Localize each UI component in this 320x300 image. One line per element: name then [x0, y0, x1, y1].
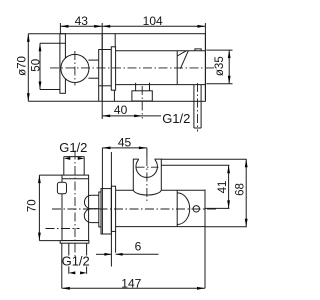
- dimension dia70: [27, 34, 102, 102]
- hook centerline vertical: [146, 157, 148, 203]
- extension pipe axis: [205, 207, 229, 209]
- outlet centerline: [141, 86, 143, 119]
- body bottom cap: [60, 241, 89, 244]
- dimension 40: [99, 86, 161, 118]
- pipe joint: [176, 51, 178, 85]
- dimension 50: [39, 43, 66, 89]
- outlet neck: [135, 83, 137, 91]
- extension pipe bottom: [205, 226, 247, 228]
- knob centerline: [74, 51, 76, 86]
- dimension 70: [38, 175, 62, 241]
- pipe centerline: [50, 67, 217, 69]
- svg-text:G1/2: G1/2: [62, 254, 90, 269]
- pipe end edge: [204, 33, 206, 101]
- screw hole: [193, 206, 199, 212]
- dimension 6 extension: [115, 231, 117, 252]
- svg-text:43: 43: [75, 14, 89, 28]
- diverter dome arc: [177, 193, 189, 225]
- dimension 41: [227, 165, 230, 208]
- housing top step at ring: [114, 34, 116, 47]
- holder centerline: [197, 83, 199, 132]
- housing bottom step at ring: [113, 90, 115, 101]
- pipe plan top edge: [116, 189, 205, 191]
- top port: [64, 157, 84, 176]
- dimension 68: [245, 159, 248, 227]
- head chamfer diagonal: [177, 51, 186, 56]
- svg-text:104: 104: [143, 14, 163, 28]
- svg-text:40: 40: [114, 103, 128, 117]
- hook centerline horizontal: [136, 166, 159, 168]
- svg-text:ø70: ø70: [17, 56, 29, 76]
- pipe bottom edge: [116, 84, 206, 86]
- svg-text:G1/2: G1/2: [59, 140, 87, 155]
- svg-text:G1/2: G1/2: [162, 111, 190, 126]
- knob circle: [61, 54, 89, 82]
- extension line pipe end: [204, 23, 206, 34]
- knob stem: [88, 59, 98, 61]
- bottom port: [69, 243, 87, 274]
- cover ring side view: [111, 47, 115, 90]
- head diagonal: [180, 51, 188, 69]
- connector lobe upper: [84, 195, 98, 209]
- svg-text:45: 45: [118, 135, 132, 149]
- wall line: [110, 152, 112, 267]
- valve body: [62, 175, 89, 241]
- outlet block: [132, 91, 152, 101]
- collar plan view: [99, 192, 101, 227]
- svg-text:50: 50: [31, 59, 43, 72]
- connector lobe lower: [84, 209, 98, 223]
- extension holder top (68): [161, 158, 246, 160]
- dimension 45: [102, 147, 146, 235]
- pipe top edge: [116, 50, 206, 52]
- svg-text:68: 68: [234, 183, 246, 196]
- collar block: [99, 50, 112, 86]
- body centerline: [74, 151, 76, 258]
- body top cap line: [62, 178, 89, 180]
- extension line wall: [101, 23, 103, 119]
- svg-text:ø35: ø35: [214, 56, 226, 76]
- holder side view: [194, 85, 201, 128]
- dimension line 43/104: [60, 25, 205, 28]
- extension line left (flange face): [59, 23, 61, 34]
- shower holder hook: [133, 159, 161, 195]
- pipe plan centerline: [52, 208, 217, 210]
- svg-text:6: 6: [135, 239, 142, 253]
- svg-text:41: 41: [217, 181, 229, 194]
- svg-text:70: 70: [26, 199, 38, 212]
- in-wall housing box: [102, 34, 205, 102]
- side boss: [57, 182, 66, 194]
- plate plan view: [101, 189, 111, 234]
- lower axis centerline: [46, 228, 80, 230]
- pipe plan bottom edge: [116, 226, 205, 228]
- dimension 6: [96, 253, 159, 256]
- flange side view: [60, 34, 66, 94]
- svg-text:147: 147: [121, 276, 141, 290]
- cover ring plan view: [111, 186, 115, 231]
- dimension 147: [62, 190, 205, 290]
- dimension dia35: [206, 50, 232, 84]
- pipe plan joint: [176, 190, 178, 226]
- extension holder shoulder (41): [161, 164, 229, 166]
- head top bump: [195, 49, 201, 51]
